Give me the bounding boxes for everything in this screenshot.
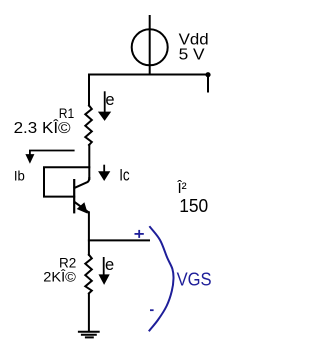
current arrow Ie (R2) bbox=[103, 257, 105, 275]
svg-text:2.3 KÎ©: 2.3 KÎ© bbox=[14, 120, 72, 137]
voltage source Vdd bbox=[132, 29, 168, 65]
wire top rail bbox=[89, 74, 208, 76]
svg-text:e: e bbox=[105, 91, 114, 109]
wire R1 to collector bbox=[88, 145, 90, 179]
svg-text:Î²: Î² bbox=[177, 180, 187, 197]
transistor Q1 emitter arrowhead bbox=[78, 203, 87, 213]
svg-text:150: 150 bbox=[179, 196, 208, 216]
annotation plus sign bbox=[135, 230, 144, 238]
annotation minus sign bbox=[150, 309, 154, 311]
wire collector-base feedback box bbox=[44, 167, 89, 196]
svg-text:R1: R1 bbox=[59, 106, 75, 121]
resistor R1 bbox=[85, 106, 92, 146]
wire right stub bbox=[207, 75, 209, 92]
annotation VGS arc bbox=[149, 226, 174, 331]
wire source top lead bbox=[149, 16, 151, 75]
svg-text:e: e bbox=[105, 256, 114, 274]
transistor Q1 base bar bbox=[73, 180, 75, 212]
wire emitter down bbox=[88, 212, 90, 255]
svg-text:VGS: VGS bbox=[177, 270, 212, 290]
current arrow Ib bbox=[30, 151, 75, 156]
svg-text:Ib: Ib bbox=[14, 167, 25, 183]
wire R2 to ground bbox=[88, 294, 90, 331]
resistor R2 bbox=[85, 255, 92, 293]
junction dot bbox=[205, 72, 210, 77]
svg-text:2KÎ©: 2KÎ© bbox=[43, 269, 76, 285]
svg-text:Ic: Ic bbox=[119, 167, 130, 185]
transistor Q1 emitter lead bbox=[75, 202, 89, 212]
current arrow Ie (R1) bbox=[104, 91, 106, 112]
wire rail to R1 bbox=[88, 75, 90, 106]
current arrow Ic bbox=[103, 165, 105, 172]
ground bbox=[79, 331, 99, 333]
transistor Q1 collector lead bbox=[75, 178, 90, 188]
svg-text:5 V: 5 V bbox=[179, 46, 206, 63]
wire branch to VGS plus bbox=[89, 239, 149, 241]
